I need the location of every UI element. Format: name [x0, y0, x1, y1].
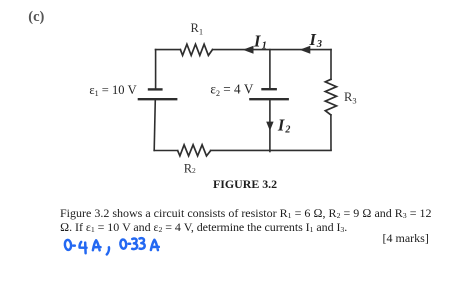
handwritten digit 0 [64, 240, 71, 251]
wire bottom-right segment [211, 149, 331, 151]
handwritten digit 3 [132, 239, 137, 250]
battery E1 long plate [139, 98, 176, 100]
svg-text:I2: I2 [277, 115, 290, 135]
wire left rail upper [155, 50, 157, 89]
wire top-middle segment [213, 49, 332, 51]
handwritten decimal point [73, 244, 75, 247]
wire bottom-left segment [154, 150, 178, 152]
wire right rail upper [330, 50, 332, 80]
svg-text:R3: R3 [344, 90, 357, 106]
resistor R2 [178, 145, 211, 156]
current arrow I2 [266, 122, 273, 131]
resistor R3 [325, 79, 336, 115]
handwritten digit 3 [140, 238, 145, 249]
handwritten comma [107, 247, 109, 254]
current arrow I3 [300, 46, 311, 54]
handwritten letter A [151, 240, 159, 250]
question text line 2 [60, 220, 347, 235]
wire right rail lower [330, 115, 332, 150]
wire left rail lower [154, 99, 155, 150]
wire top-left segment [156, 49, 181, 51]
handwritten digit 4 [80, 242, 87, 253]
svg-text:ε1 = 10 V: ε1 = 10 V [89, 83, 136, 98]
handwritten decimal point [129, 242, 131, 245]
svg-text:I1: I1 [253, 31, 267, 51]
part label (c) [28, 9, 44, 26]
wire middle rail lower [269, 99, 271, 151]
resistor R1 [180, 44, 212, 55]
marks label [383, 231, 429, 246]
battery E2 long plate [250, 98, 287, 100]
battery E2 short plate [263, 88, 276, 90]
svg-text:R1: R1 [191, 21, 204, 37]
handwritten letter A [93, 240, 101, 250]
wire middle rail upper [269, 50, 271, 89]
handwritten digit 0 [120, 239, 127, 249]
handwritten answer 0.4 A, 0.33 A in blue ink [64, 238, 158, 254]
battery E1 short plate [149, 88, 161, 90]
question text line 1 [60, 206, 431, 221]
svg-text:R2: R2 [184, 162, 196, 176]
svg-text:ε2 = 4 V: ε2 = 4 V [210, 82, 253, 98]
figure caption [213, 177, 277, 192]
svg-text:I3: I3 [309, 30, 322, 50]
current arrow I1 [243, 46, 254, 54]
